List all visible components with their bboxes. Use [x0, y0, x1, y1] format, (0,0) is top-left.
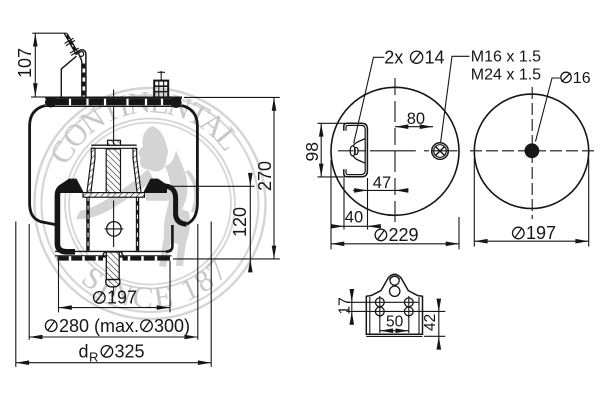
dim 107 top extension line	[32, 32, 66, 34]
label 2x D14	[384, 47, 444, 67]
dim D280 extensions	[29, 224, 198, 340]
watermark medallion circle pair	[65, 119, 235, 289]
piston base crimp band	[58, 256, 171, 260]
tab hole lower	[390, 286, 400, 296]
dim 42 arrows (outside)	[437, 299, 442, 312]
svg-text:47: 47	[373, 174, 391, 192]
dim D197 left extensions	[59, 261, 171, 313]
dim D197 right extensions	[474, 158, 588, 247]
dim D280 line	[29, 336, 198, 338]
dim D229 extensions	[331, 160, 459, 249]
dim 17 line	[351, 290, 353, 324]
bracket channel outer	[344, 123, 368, 177]
dim 42 bottom extension	[424, 335, 445, 337]
dim 120 top extension	[172, 185, 255, 187]
svg-text:M16 x 1.5: M16 x 1.5	[471, 48, 541, 65]
dim D325 text	[79, 342, 145, 365]
dim 270/120 bottom extension	[173, 258, 280, 260]
bracket wall weld dashes	[83, 64, 86, 96]
svg-text:270: 270	[255, 161, 275, 191]
dim 47 line	[353, 189, 409, 191]
top plate crimp band	[46, 99, 181, 106]
svg-text:14: 14	[425, 47, 445, 67]
dim D280 text	[45, 316, 190, 336]
right horizontal centerline	[470, 150, 597, 152]
svg-text:R: R	[89, 350, 98, 365]
svg-text:17: 17	[336, 297, 353, 314]
tab hole upper	[390, 276, 399, 285]
svg-text:120: 120	[230, 207, 250, 237]
watermark ring outer circle pair	[35, 88, 266, 319]
center bolt stub above cup	[108, 140, 121, 145]
bottom stud collar	[102, 252, 123, 257]
dim 270 arrow down	[272, 246, 277, 259]
bellows rolling lobe right	[150, 186, 187, 224]
dim D325 extensions	[16, 222, 211, 367]
dim D197 right text	[513, 223, 557, 243]
piston centerline	[113, 90, 115, 248]
bracket plate outline	[366, 274, 422, 334]
bottom stud foot	[106, 280, 120, 287]
middle horizontal centerline	[338, 150, 458, 152]
piston body right wall	[136, 197, 138, 252]
dim 42 line	[438, 299, 440, 349]
middle vertical centerline	[394, 78, 396, 228]
dim 40 arrows (outside)	[331, 224, 344, 229]
dim D229 text	[375, 225, 418, 245]
dim 270 arrow up	[272, 97, 277, 110]
hole column centerlines	[380, 296, 409, 318]
dim 80 arrows	[395, 124, 408, 129]
dim 270 line	[273, 97, 275, 259]
dim D197 left line	[59, 307, 171, 309]
hole row centerline bottom / 17 and 42 extension	[346, 310, 445, 312]
top mounting strap (sectioned, angled)	[64, 33, 79, 55]
stud boss lower profile	[353, 155, 365, 163]
dim D197 left text	[94, 288, 138, 308]
dim 50 line	[380, 330, 409, 332]
svg-text:16: 16	[573, 70, 591, 87]
bracket tab inner arc	[389, 276, 400, 279]
piston base plate lines	[55, 251, 172, 255]
piston cup right wall	[133, 148, 141, 192]
svg-text:98: 98	[302, 142, 322, 161]
dim 50 extensions	[380, 317, 409, 334]
svg-text:42: 42	[422, 314, 439, 331]
stud boss end face	[350, 146, 355, 156]
svg-text:40: 40	[345, 209, 363, 227]
bellows rolling lobe left	[57, 186, 77, 252]
piston body left wall	[87, 197, 89, 252]
dim D325 arrows	[16, 360, 29, 365]
dim D325 line	[16, 362, 211, 364]
stud boss inner ring	[354, 147, 358, 154]
stud centerline below tip	[113, 288, 115, 296]
air fitting centerline	[158, 71, 166, 80]
dim 120 arrow up (outside bottom)	[248, 259, 253, 272]
dim D197 right line	[474, 240, 588, 242]
dim D229 arrows	[331, 242, 344, 247]
dim 107 arrow up	[33, 33, 38, 46]
strap curl hook	[76, 50, 86, 97]
dim 120 line	[249, 173, 251, 272]
svg-text:197: 197	[107, 288, 137, 308]
top plate bottom line	[45, 105, 182, 107]
bracket plate inner lines	[366, 297, 422, 336]
dim 120 arrow down (outside top)	[248, 173, 253, 186]
svg-text:50: 50	[386, 314, 404, 331]
piston center mark	[105, 222, 124, 237]
piston flange (hatched)	[83, 193, 145, 198]
dim D197 left arrows	[59, 305, 72, 310]
dim 107 arrow down	[33, 83, 38, 96]
dim 107 line	[34, 33, 36, 96]
leader D16	[536, 78, 561, 142]
dim 98 extensions	[318, 123, 346, 177]
right bead	[170, 98, 181, 108]
bolt symbol	[432, 143, 449, 160]
bottom stud (hatched)	[106, 252, 119, 287]
center bolt (hatched)	[106, 149, 120, 193]
svg-text:325: 325	[115, 342, 145, 362]
dim 47 arrows (outside)	[354, 188, 367, 193]
bolt holes 2x2	[375, 298, 413, 316]
dim 40 line	[331, 225, 381, 227]
right circle (piston D197)	[474, 94, 588, 208]
leader 2x D14	[354, 57, 385, 143]
right vertical centerline	[531, 87, 533, 219]
dim 40 extensions	[344, 178, 368, 230]
air fitting body	[154, 81, 168, 98]
strap section dashes	[65, 35, 76, 50]
svg-text:280 (max.: 280 (max.	[59, 316, 139, 336]
hole row centerline top / dim 17 extensions	[346, 301, 419, 303]
dim 107 bottom extension line	[31, 96, 46, 98]
air fitting grid	[154, 81, 168, 98]
svg-text:d: d	[79, 342, 89, 362]
bracket left wall	[61, 56, 76, 97]
left bead	[45, 97, 56, 107]
piston skirt line right	[166, 225, 172, 252]
dim 17 arrows (outside)	[350, 289, 355, 302]
leader M16/M24	[441, 56, 470, 143]
dim 270 top extension	[184, 96, 280, 98]
svg-text:107: 107	[15, 48, 35, 78]
dim D229 line	[331, 243, 459, 245]
bracket channel inner	[346, 125, 365, 174]
strap curl inner spiral	[79, 52, 84, 57]
dim 98 line	[320, 123, 322, 177]
bracket right wall inner line	[79, 54, 82, 97]
label D16	[561, 70, 591, 87]
bellows upper bag outline left	[30, 106, 56, 225]
svg-text:229: 229	[389, 225, 419, 245]
svg-text:197: 197	[526, 223, 556, 243]
piston cup left wall	[87, 148, 95, 192]
dim D280 arrows	[29, 335, 42, 340]
dim 98 arrows	[319, 123, 324, 136]
center stud dot	[525, 143, 540, 158]
svg-text:2x: 2x	[384, 47, 403, 67]
dim D197 right arrows	[474, 239, 487, 244]
middle circle (plate D229)	[331, 87, 459, 215]
bellows upper bag outline right	[182, 106, 198, 225]
dim 80 line	[395, 126, 433, 128]
piston cup top	[91, 145, 136, 148]
rubber wedge right	[143, 179, 167, 193]
watermark horse	[76, 126, 199, 267]
stud boss upper profile	[353, 139, 365, 147]
svg-text:M24 x 1.5: M24 x 1.5	[471, 66, 541, 83]
rubber wedge left	[60, 179, 84, 193]
top plate top line	[45, 96, 182, 98]
dim 50 arrows	[380, 328, 393, 333]
svg-text:300): 300)	[154, 316, 190, 336]
svg-text:80: 80	[407, 110, 425, 128]
strap break ticks	[65, 38, 81, 55]
